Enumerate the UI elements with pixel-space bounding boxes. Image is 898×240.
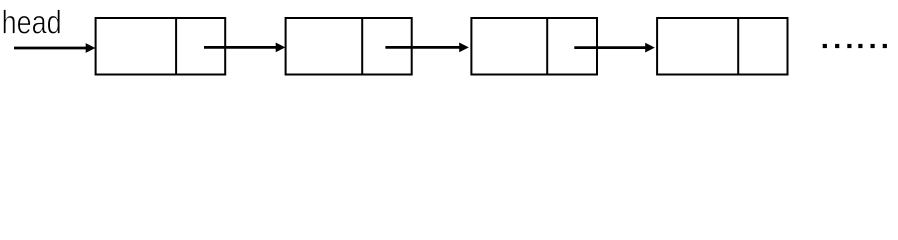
node 3 divider: [546, 18, 548, 75]
node 4 box: [657, 18, 787, 75]
ellipsis dots: [823, 44, 887, 48]
arrow node2 to node3: [385, 43, 468, 53]
node 1 divider: [175, 18, 177, 75]
svg-text:head: head: [2, 4, 62, 41]
node 2 divider: [361, 18, 363, 75]
node 2 box: [286, 18, 412, 75]
head pointer arrow: [14, 43, 95, 53]
node 3 box: [471, 18, 597, 75]
node 1 box: [96, 18, 226, 75]
arrow node1 to node2: [204, 43, 285, 53]
arrow node3 to node4: [574, 43, 655, 53]
node 4 divider: [737, 18, 739, 75]
